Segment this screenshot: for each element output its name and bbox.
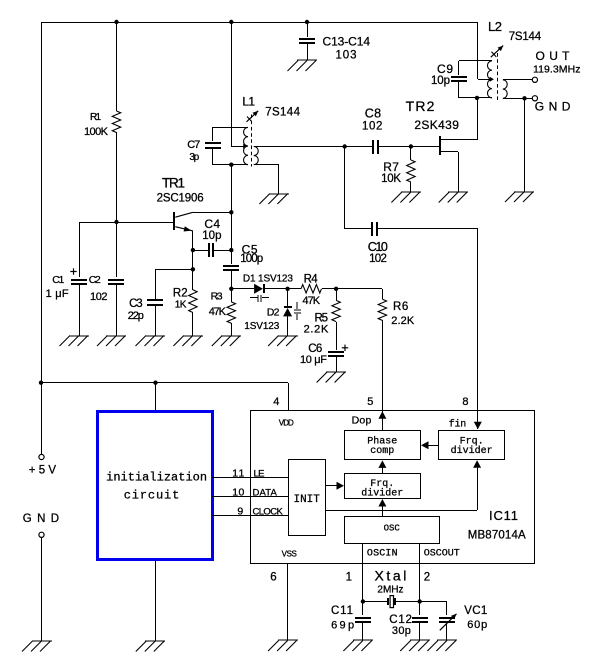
inductor L1 primary bbox=[244, 127, 248, 164]
node junction collector bbox=[229, 210, 233, 214]
op-amp IC11 MB87014A outline bbox=[251, 411, 535, 564]
ground under init box bbox=[136, 641, 165, 652]
diode D2 1SV123 bbox=[244, 302, 301, 332]
ground under pin 6 bbox=[268, 640, 298, 651]
svg-text:C2: C2 bbox=[89, 274, 101, 286]
capacitor C2 102 bbox=[89, 274, 124, 303]
wire +5V stub bbox=[41, 383, 43, 454]
wire C13-C14 bottom bbox=[307, 43, 309, 60]
svg-text:69p: 69p bbox=[331, 619, 354, 631]
capacitor C12 30p bbox=[389, 602, 428, 640]
resistor R4 47K bbox=[288, 274, 336, 308]
pin OSCIN label bbox=[367, 549, 398, 560]
svg-text:O U T: O U T bbox=[536, 49, 571, 63]
ground under R2 bbox=[173, 336, 203, 347]
terminal OUT bbox=[532, 49, 580, 82]
ground under C12 bbox=[400, 640, 430, 651]
pin 6 label bbox=[270, 572, 276, 584]
svg-text:divider: divider bbox=[451, 445, 493, 457]
svg-text:2: 2 bbox=[424, 572, 430, 584]
svg-text:9: 9 bbox=[237, 506, 243, 518]
node junction drain/L2 bbox=[475, 96, 479, 100]
wire C7 top net bbox=[213, 127, 248, 129]
svg-text:8: 8 bbox=[462, 396, 468, 408]
svg-text:L1: L1 bbox=[242, 95, 255, 109]
pin CLOCK label bbox=[253, 507, 284, 518]
svg-text:DATA: DATA bbox=[253, 488, 278, 499]
node junction R7 bbox=[409, 144, 413, 148]
ground under TR2 source bbox=[439, 192, 468, 203]
variable capacitor VC1 60p bbox=[420, 602, 487, 641]
terminal GND left bbox=[23, 513, 59, 537]
pin 11 label bbox=[232, 467, 244, 479]
wire C9 left top bbox=[458, 61, 460, 75]
svg-text:102: 102 bbox=[90, 291, 108, 303]
svg-text:D1 1SV123: D1 1SV123 bbox=[243, 274, 293, 285]
ground under VC1 bbox=[427, 640, 457, 651]
wire L1 secondary bottom bbox=[254, 165, 279, 195]
wire GND terminal down bbox=[524, 98, 526, 192]
wire C3 bottom bbox=[155, 305, 157, 336]
wire DATA bbox=[212, 496, 288, 498]
ground under C1 bbox=[60, 336, 90, 347]
svg-text:VDD: VDD bbox=[279, 419, 294, 428]
wire L1 tap feed bbox=[231, 22, 244, 147]
svg-text:100K: 100K bbox=[84, 126, 109, 138]
wire TR1 collector bbox=[193, 212, 231, 214]
capacitor C4 10p bbox=[202, 217, 221, 257]
wire C9 bottom net bbox=[459, 97, 492, 99]
pin fin label bbox=[449, 419, 467, 431]
wire C9 top net bbox=[459, 60, 492, 62]
svg-text:circuit: circuit bbox=[124, 489, 180, 503]
pin 1 stub bbox=[362, 564, 364, 602]
capacitor C3 22p bbox=[128, 298, 163, 322]
pin OSCOUT label bbox=[424, 549, 460, 560]
wire top +V rail bbox=[41, 22, 478, 383]
resistor R6 2.2K bbox=[378, 299, 415, 327]
svg-text:C11: C11 bbox=[331, 605, 353, 617]
ground under D2 bbox=[268, 336, 298, 347]
block OSC bbox=[345, 517, 440, 544]
node junction init feed bbox=[153, 381, 157, 385]
svg-text:IC11: IC11 bbox=[489, 508, 518, 523]
svg-text:VSS: VSS bbox=[282, 549, 297, 558]
svg-text:2.2K: 2.2K bbox=[304, 324, 329, 336]
svg-text:47K: 47K bbox=[302, 295, 320, 307]
svg-text:2MHz: 2MHz bbox=[377, 585, 403, 596]
svg-text:1: 1 bbox=[346, 572, 352, 584]
ground under R3 bbox=[212, 336, 241, 347]
svg-text:R6: R6 bbox=[393, 301, 408, 313]
wire C7 bottom net bbox=[213, 164, 248, 166]
pin 5 label bbox=[367, 396, 373, 408]
wire +5V distribution bbox=[41, 383, 289, 411]
pin 8 label bbox=[462, 396, 468, 408]
svg-text:fin: fin bbox=[449, 419, 467, 431]
node L2 tap bbox=[490, 77, 494, 82]
wire C7 left bottom bbox=[212, 148, 214, 165]
svg-text:11: 11 bbox=[232, 467, 244, 479]
pin 1 label bbox=[346, 572, 352, 584]
wire feedback to frq divider bbox=[325, 460, 481, 510]
node junction C4/C5 bbox=[229, 248, 233, 252]
pin 10 label bbox=[232, 487, 244, 499]
svg-text:R3: R3 bbox=[211, 291, 223, 303]
wire D2 bottom bbox=[287, 316, 289, 336]
svg-text:C3: C3 bbox=[129, 298, 143, 310]
wire C1 bottom bbox=[79, 284, 81, 336]
svg-text:+5V: +5V bbox=[29, 465, 57, 477]
capacitor C1 1uF bbox=[46, 268, 87, 300]
wire C1 top bbox=[79, 222, 81, 277]
ground under C11 bbox=[343, 640, 373, 651]
resistor R2 1K bbox=[173, 288, 197, 313]
svg-text:R2: R2 bbox=[173, 288, 188, 300]
svg-text:R7: R7 bbox=[383, 160, 399, 174]
svg-text:5: 5 bbox=[367, 396, 373, 408]
resistor R3 47K bbox=[209, 289, 236, 336]
svg-text:CLOCK: CLOCK bbox=[253, 507, 284, 518]
wire CLOCK bbox=[212, 515, 288, 517]
node junction C5/D1/R3 bbox=[229, 287, 233, 291]
svg-text:C10: C10 bbox=[368, 240, 388, 254]
svg-text:1SV123: 1SV123 bbox=[244, 321, 279, 332]
svg-text:comp: comp bbox=[370, 446, 394, 457]
svg-text:103: 103 bbox=[336, 50, 357, 62]
wire C10 right to fin bbox=[377, 229, 478, 430]
svg-text:R1: R1 bbox=[90, 112, 101, 123]
wire LE bbox=[212, 477, 288, 479]
capacitor C10 102 bbox=[368, 222, 388, 265]
svg-text:102: 102 bbox=[362, 121, 382, 133]
node junction top rail x307 bbox=[305, 20, 309, 24]
wire L2 feed bbox=[478, 22, 491, 80]
pin 4 label bbox=[273, 396, 279, 408]
wire TR1 emitter bbox=[192, 231, 194, 250]
svg-text:LE: LE bbox=[254, 468, 265, 479]
block INIT bbox=[289, 460, 326, 536]
svg-text:TR2: TR2 bbox=[406, 98, 435, 114]
node junction GND tap bbox=[522, 96, 526, 100]
wire emitter to R2 bbox=[192, 250, 194, 269]
svg-text:2SC1906: 2SC1906 bbox=[157, 193, 204, 205]
svg-text:3p: 3p bbox=[189, 152, 199, 163]
pin Dop label bbox=[352, 415, 372, 427]
wire C4 left bbox=[193, 250, 209, 252]
svg-text:47K: 47K bbox=[209, 306, 227, 318]
wire OSCIN divider bbox=[362, 544, 364, 564]
svg-text:100p: 100p bbox=[240, 253, 263, 265]
inductor L2 secondary bbox=[503, 80, 507, 99]
svg-text:2SK439: 2SK439 bbox=[414, 118, 459, 132]
terminal +5V bbox=[29, 454, 57, 476]
node junction xtal right bbox=[418, 599, 422, 603]
transistor TR2 2SK439 bbox=[406, 98, 478, 192]
svg-text:OSC: OSC bbox=[384, 524, 401, 534]
terminal GND out bbox=[532, 96, 570, 114]
inductor L2 adjust arrow bbox=[488, 19, 542, 57]
wire C7 left top bbox=[212, 127, 214, 141]
wire C4 right bbox=[213, 250, 231, 252]
crystal Xtal 2MHz bbox=[375, 568, 407, 608]
svg-text:C7: C7 bbox=[187, 139, 200, 151]
node junction D1/D2/R4 bbox=[285, 287, 289, 291]
svg-text:30p: 30p bbox=[392, 625, 411, 637]
wire INIT to divider bbox=[325, 482, 344, 490]
svg-text:4: 4 bbox=[273, 396, 279, 408]
svg-text:G N D: G N D bbox=[535, 100, 571, 114]
svg-text:OSCIN: OSCIN bbox=[367, 549, 398, 560]
inductor L1 core bbox=[251, 115, 253, 167]
svg-text:119.3MHz: 119.3MHz bbox=[533, 64, 581, 76]
wire R5 to C6 bbox=[336, 322, 338, 350]
wire C9 left bottom bbox=[458, 81, 460, 98]
pin VSS label bbox=[282, 549, 297, 558]
capacitor C7 3p bbox=[187, 139, 221, 163]
node junction R4/R5 bbox=[334, 287, 338, 291]
svg-text:1K: 1K bbox=[175, 300, 187, 311]
wire TR1 base net bbox=[79, 222, 174, 224]
svg-text:Dop: Dop bbox=[352, 415, 372, 427]
ground under R7 bbox=[391, 192, 421, 203]
capacitor C6 10uF bbox=[300, 343, 348, 366]
ground under C13-C14 bbox=[288, 60, 318, 71]
wire C3 net bbox=[155, 269, 193, 271]
capacitor C11 69p bbox=[331, 602, 371, 640]
svg-text:C1: C1 bbox=[52, 274, 64, 286]
ground under C2 bbox=[97, 336, 126, 347]
svg-text:TR1: TR1 bbox=[162, 176, 185, 191]
ground under C3 bbox=[136, 336, 166, 347]
svg-text:initialization: initialization bbox=[106, 471, 207, 485]
inductor L2 core bbox=[497, 53, 499, 101]
wire divider to phase comp bbox=[378, 460, 386, 474]
inductor L1 secondary bbox=[254, 146, 259, 164]
wire C3 top bbox=[155, 269, 157, 300]
node junction C3/R2 bbox=[191, 267, 195, 271]
svg-text:60p: 60p bbox=[467, 619, 487, 631]
wire init box feed bbox=[155, 383, 157, 412]
svg-text:6: 6 bbox=[270, 572, 276, 584]
ground under GND terminal bbox=[505, 192, 534, 203]
wire C13-C14 top bbox=[307, 22, 309, 37]
wire C10 left bbox=[345, 146, 373, 229]
wire xtal right bbox=[396, 601, 420, 603]
wire init box ground stem bbox=[155, 561, 157, 641]
wire OSCOUT divider bbox=[419, 544, 421, 564]
svg-text:10p: 10p bbox=[431, 75, 450, 87]
pin 2 label bbox=[424, 572, 430, 584]
wire R2 top bbox=[192, 269, 194, 290]
pin 5 Dop arrow bbox=[378, 411, 386, 419]
wire gate net right bbox=[378, 146, 439, 148]
ground bottom left bbox=[22, 641, 52, 652]
resistor R5 2.2K bbox=[304, 289, 341, 336]
node junction C7/collector line bbox=[229, 163, 233, 167]
wire OUT bbox=[503, 79, 532, 81]
node junction top rail x231 bbox=[229, 20, 233, 24]
svg-text:10: 10 bbox=[232, 487, 244, 499]
wire C2 top bbox=[116, 222, 118, 277]
pin 8 fin arrow bbox=[474, 422, 482, 430]
wire C2 bottom bbox=[116, 284, 118, 336]
capacitor C8 102 bbox=[362, 107, 382, 155]
pin VDD label bbox=[279, 419, 294, 428]
pin LE label bbox=[254, 468, 265, 479]
node junction rail/dist bbox=[39, 381, 43, 385]
ground under C6 bbox=[317, 372, 346, 383]
wire frq divider to phase comp bbox=[421, 441, 439, 449]
wire R1 bottom bbox=[116, 132, 118, 222]
block Frq divider mid bbox=[345, 474, 421, 500]
svg-text:MB87014A: MB87014A bbox=[468, 530, 526, 542]
svg-text:G N D: G N D bbox=[23, 513, 59, 525]
block Phase comp bbox=[345, 431, 421, 460]
svg-text:OSCOUT: OSCOUT bbox=[424, 549, 460, 560]
pin 9 label bbox=[237, 506, 243, 518]
svg-text:L2: L2 bbox=[488, 19, 502, 34]
node junction C10 branch bbox=[343, 144, 347, 148]
svg-text:7S144: 7S144 bbox=[509, 31, 542, 43]
wire collector riser bbox=[231, 165, 233, 250]
transistor TR1 2SC1906 bbox=[157, 176, 204, 232]
wire R4/R5 to R6 bbox=[336, 289, 383, 300]
node junction base/R1 bbox=[114, 220, 118, 224]
wire L2 secondary bottom bbox=[503, 98, 532, 100]
svg-text:C8: C8 bbox=[365, 107, 381, 121]
wire GND left down bbox=[41, 537, 43, 641]
wire OSC to divider bbox=[378, 499, 386, 516]
inductor L2 primary bbox=[487, 61, 491, 98]
capacitor C5 labels bbox=[240, 243, 263, 265]
wire R2 bottom bbox=[192, 312, 194, 336]
svg-text:10p: 10p bbox=[202, 230, 221, 242]
capacitor C9 10p bbox=[431, 62, 467, 87]
resistor R7 10K bbox=[381, 146, 415, 192]
pin 6 stub bbox=[287, 563, 289, 640]
pin DATA label bbox=[253, 488, 278, 499]
node junction emitter/C4 bbox=[191, 248, 195, 252]
wire xtal left bbox=[363, 601, 388, 603]
resistor R1 bbox=[84, 111, 121, 138]
svg-text:10K: 10K bbox=[381, 173, 401, 185]
svg-text:divider: divider bbox=[361, 488, 403, 500]
node junction xtal left bbox=[361, 599, 365, 603]
svg-text:VC1: VC1 bbox=[464, 605, 487, 617]
inductor L1 adjust arrow bbox=[242, 95, 300, 122]
wire R6 to pin5 bbox=[382, 320, 384, 430]
svg-text:D2: D2 bbox=[267, 307, 280, 319]
capacitor C13-C14 bbox=[299, 35, 370, 62]
wire C5 bbox=[223, 250, 239, 289]
node L1 tap bbox=[243, 144, 247, 149]
wire D1 cathode bbox=[264, 288, 288, 290]
svg-text:10 μF: 10 μF bbox=[300, 354, 327, 366]
svg-text:2.2K: 2.2K bbox=[391, 315, 415, 327]
ground under L1 secondary bbox=[259, 194, 289, 205]
pin 2 stub bbox=[419, 564, 421, 602]
svg-text:1 μF: 1 μF bbox=[46, 288, 69, 300]
diode D1 1SV123 bbox=[243, 274, 293, 303]
svg-text:22p: 22p bbox=[128, 310, 144, 322]
svg-text:7S144: 7S144 bbox=[265, 107, 300, 119]
wire D2 top bbox=[287, 289, 289, 307]
svg-text:INIT: INIT bbox=[294, 494, 321, 506]
node junction top rail x116 bbox=[114, 20, 118, 24]
block initialization circuit bbox=[98, 412, 213, 560]
wire R1 top bbox=[116, 22, 118, 111]
wire D1 anode bbox=[231, 288, 254, 290]
wire C6 bottom bbox=[336, 356, 338, 372]
wire gate net left bbox=[254, 146, 373, 148]
svg-text:R4: R4 bbox=[304, 274, 319, 286]
svg-text:C13-C14: C13-C14 bbox=[323, 35, 371, 49]
svg-text:102: 102 bbox=[369, 253, 387, 265]
block Frq divider right bbox=[439, 431, 505, 460]
